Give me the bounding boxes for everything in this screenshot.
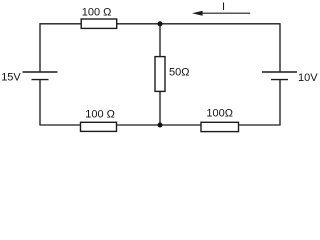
wire: lower right rail + bottom-right corner [239, 80, 281, 125]
wire: lower left rail + bottom-left corner [40, 80, 81, 125]
wire: bottom middle segment [117, 124, 202, 126]
resistor R4 100ohm (bottom right) [201, 108, 239, 132]
resistor R2 50ohm (middle) [155, 57, 189, 92]
wire: top-left corner + upper left rail [40, 24, 81, 73]
svg-text:50Ω: 50Ω [169, 67, 189, 79]
svg-text:100Ω: 100Ω [206, 108, 233, 120]
wire: middle rail lower [159, 91, 161, 125]
current arrow I [192, 1, 250, 16]
resistor R1 100ohm (top) [81, 7, 117, 29]
battery V1 15V (left) [1, 72, 57, 84]
svg-text:100 Ω: 100 Ω [82, 7, 112, 19]
svg-text:15V: 15V [1, 72, 21, 84]
node: top junction dot [157, 21, 162, 26]
wire: middle rail upper [159, 24, 161, 57]
node: bottom junction dot [157, 122, 162, 127]
wire: top horizontal from R1 to right rail + upper right rail [117, 24, 280, 73]
resistor R3 100ohm (bottom left) [81, 109, 117, 132]
battery V2 10V (right) [262, 72, 318, 84]
svg-text:I: I [222, 1, 225, 13]
svg-text:100 Ω: 100 Ω [85, 109, 115, 121]
svg-text:10V: 10V [298, 72, 318, 84]
